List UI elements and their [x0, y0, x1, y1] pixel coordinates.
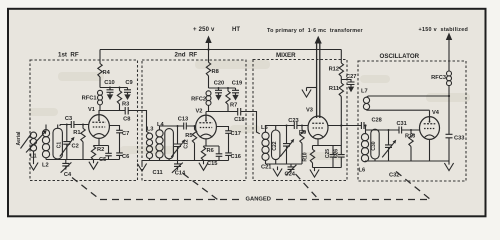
- svg-text:C16: C16: [231, 154, 241, 160]
- svg-text:V4: V4: [432, 110, 440, 116]
- svg-text:L6: L6: [359, 168, 366, 174]
- resistor R11: [339, 83, 343, 146]
- svg-text:C6: C6: [122, 154, 129, 160]
- choke RFC3: [447, 71, 452, 86]
- cathode network V1: [94, 138, 109, 145]
- capacitor C33: [446, 134, 453, 138]
- wire R4 to screen rail: [100, 77, 128, 88]
- +250v HT arrow: [208, 41, 210, 50]
- svg-text:C10: C10: [104, 80, 114, 86]
- resistor R7: [226, 88, 230, 112]
- resistor R5: [192, 126, 196, 161]
- svg-text:R10: R10: [303, 152, 309, 161]
- svg-text:C2: C2: [72, 144, 79, 150]
- ground at L3: [137, 162, 146, 172]
- svg-text:L2: L2: [42, 163, 49, 169]
- svg-text:C33: C33: [454, 136, 464, 142]
- svg-text:C11: C11: [153, 170, 163, 176]
- capacitor C27 branch: [341, 80, 351, 83]
- coil L7: [363, 97, 369, 110]
- capacitor C8: [125, 107, 128, 115]
- svg-text:R8: R8: [212, 69, 219, 75]
- plate wire V2: [206, 112, 238, 116]
- svg-text:L7: L7: [361, 89, 368, 95]
- svg-text:C27: C27: [346, 74, 356, 80]
- svg-text:C20: C20: [214, 81, 224, 87]
- svg-text:GANGED: GANGED: [246, 197, 271, 203]
- tube V1: [89, 115, 110, 139]
- svg-text:RFC3: RFC3: [431, 75, 446, 81]
- svg-text:C21: C21: [261, 165, 271, 171]
- box 2nd RF: [142, 60, 246, 181]
- trimmer C4: [61, 160, 72, 173]
- svg-text:C13: C13: [178, 117, 188, 123]
- variable capacitor C2: [60, 125, 75, 160]
- box MIXER: [253, 60, 347, 181]
- variable capacitor osc: [382, 130, 396, 161]
- faint bleed-through mottling: [28, 60, 470, 160]
- variable capacitor mixer: [280, 126, 294, 165]
- ground under osc: [444, 161, 453, 171]
- capacitor C23: [294, 122, 297, 129]
- svg-text:R3: R3: [122, 102, 129, 108]
- svg-text:C4: C4: [64, 172, 72, 178]
- padder box stage2: [165, 129, 174, 161]
- HT bus wire: [100, 49, 341, 51]
- svg-text:C23: C23: [288, 118, 298, 124]
- tube V4: [420, 117, 440, 140]
- coil L2: [42, 125, 49, 160]
- plate wire V1: [99, 111, 126, 115]
- svg-text:R6: R6: [207, 148, 214, 154]
- capacitor C9: [124, 88, 131, 101]
- svg-text:MIXER: MIXER: [276, 52, 296, 59]
- svg-text:+150 v stabilized: +150 v stabilized: [419, 27, 469, 33]
- svg-text:+ 250 v: + 250 v: [193, 27, 215, 33]
- padder C1 box: [53, 125, 62, 160]
- svg-text:C17: C17: [231, 131, 241, 137]
- cathode wire V4: [429, 139, 431, 161]
- svg-text:L3: L3: [147, 127, 154, 133]
- svg-text:R1: R1: [73, 130, 80, 136]
- svg-text:C30: C30: [371, 141, 377, 150]
- ground stub on output: [307, 87, 317, 89]
- tank rail mixer: [266, 163, 303, 165]
- choke RFC2: [206, 91, 211, 112]
- ground under V3: [310, 168, 319, 178]
- wire C18 to L5: [241, 112, 260, 134]
- svg-text:C15: C15: [207, 161, 217, 167]
- svg-text:C18: C18: [234, 117, 244, 123]
- svg-text:L1: L1: [30, 154, 37, 160]
- svg-text:C31: C31: [397, 121, 407, 127]
- svg-text:C25: C25: [325, 149, 331, 158]
- wire to screen rail 2: [209, 76, 236, 88]
- coil L1: [30, 132, 36, 160]
- svg-text:RFC2: RFC2: [191, 97, 206, 103]
- coupling arrow L1-L2: [26, 132, 46, 153]
- ground under R2: [89, 160, 98, 170]
- screen wire to C7/C6: [109, 126, 119, 131]
- capacitor C6: [116, 133, 123, 160]
- wire bus drop to R12: [340, 50, 342, 64]
- ganged diagonal C24: [296, 174, 319, 199]
- box OSCILLATOR: [358, 61, 466, 181]
- capacitor C5: [105, 146, 112, 160]
- svg-text:R5: R5: [185, 133, 192, 139]
- svg-text:C28: C28: [372, 118, 382, 124]
- wire L7 top to supply: [367, 96, 450, 97]
- capacitor C28: [361, 122, 364, 129]
- svg-text:V3: V3: [306, 108, 313, 114]
- wire R12-R11 node: [340, 77, 342, 84]
- svg-text:HT: HT: [232, 27, 240, 33]
- svg-text:C24: C24: [285, 172, 296, 178]
- wire C8 to L3: [128, 111, 149, 134]
- svg-text:To primary of 1·6 mc transfo: To primary of 1·6 mc transformer: [267, 28, 364, 34]
- injection wire V3 to V4: [328, 126, 420, 134]
- capacitor C10: [107, 88, 114, 101]
- screen wire to C17/C16: [216, 127, 228, 131]
- wire L7 bottom to V4 plate: [367, 110, 430, 116]
- svg-text:C19: C19: [232, 81, 242, 87]
- capacitor C17: [225, 131, 232, 134]
- capacitor C13: [184, 123, 187, 130]
- svg-text:RFC1: RFC1: [82, 96, 97, 102]
- resistor R2: [91, 146, 95, 160]
- ganged bus line: [100, 199, 431, 201]
- svg-text:C22: C22: [272, 141, 278, 150]
- ground on mixer tank: [273, 167, 282, 177]
- resistor R4: [98, 64, 102, 78]
- grid wire V2: [160, 126, 196, 130]
- grid wire V1: [60, 125, 89, 127]
- resistor R6: [201, 146, 205, 160]
- capacitor C25: [330, 146, 337, 168]
- ganged diagonal C32: [396, 172, 431, 200]
- IF output pair: [317, 42, 320, 119]
- svg-text:R9: R9: [299, 130, 306, 136]
- padder box C30: [371, 129, 379, 161]
- svg-text:C5: C5: [99, 157, 106, 163]
- resistor R13: [409, 130, 413, 161]
- tank bottom rail: [46, 159, 120, 161]
- +150v arrow: [446, 33, 452, 41]
- svg-text:R12: R12: [329, 67, 339, 73]
- resistor R1: [81, 125, 85, 160]
- svg-text:C32: C32: [389, 173, 399, 179]
- ground at L1: [29, 161, 38, 171]
- choke RFC1: [98, 90, 103, 110]
- svg-text:C14: C14: [175, 171, 186, 177]
- tank bottom rail 2: [142, 160, 229, 162]
- resistor R10: [310, 146, 314, 168]
- box 1st RF: [30, 60, 138, 181]
- svg-text:C3: C3: [65, 116, 72, 122]
- coil L6: [361, 133, 368, 161]
- capacitor C26: [338, 146, 345, 168]
- capacitor C16: [225, 133, 232, 160]
- capacitor C7: [116, 130, 123, 133]
- svg-text:2nd RF: 2nd RF: [175, 52, 198, 59]
- svg-text:C8: C8: [123, 117, 130, 123]
- wire bus drop to R8: [208, 50, 210, 63]
- ganged diagonal C14: [183, 174, 218, 200]
- svg-text:R13: R13: [405, 134, 415, 140]
- svg-text:C26: C26: [334, 149, 340, 158]
- coil L3: [146, 133, 152, 160]
- coil L4: [156, 130, 163, 161]
- resistor R12: [339, 63, 343, 77]
- tube V2: [196, 115, 217, 139]
- cathode network V3: [313, 139, 342, 146]
- svg-text:R7: R7: [230, 103, 237, 109]
- capacitor C31: [399, 127, 402, 134]
- svg-text:V2: V2: [196, 109, 203, 115]
- svg-text:V1: V1: [88, 107, 95, 113]
- svg-text:L5: L5: [261, 125, 268, 131]
- capacitor C3: [71, 121, 74, 128]
- capacitor C18: [238, 108, 241, 116]
- tube V3: [308, 116, 328, 139]
- capacitor C19: [232, 88, 239, 101]
- ganged diagonal C4: [72, 178, 100, 200]
- svg-text:OSCILLATOR: OSCILLATOR: [380, 53, 420, 60]
- trimmer C14: [172, 161, 183, 173]
- capacitor C15: [216, 146, 223, 161]
- svg-text:C7: C7: [122, 131, 129, 137]
- +150v supply wire: [448, 39, 450, 161]
- svg-text:C12: C12: [184, 139, 190, 148]
- grid wire V3 left: [266, 126, 309, 133]
- trimmer C24: [286, 164, 297, 175]
- svg-text:C9: C9: [125, 80, 132, 86]
- svg-text:R4: R4: [103, 70, 111, 76]
- svg-text:R2: R2: [97, 147, 104, 153]
- capacitor C20: [215, 88, 222, 101]
- osc bottom rail: [365, 160, 449, 162]
- resistor R3: [117, 88, 121, 111]
- resistor R8: [206, 62, 210, 76]
- svg-text:1st RF: 1st RF: [58, 52, 79, 59]
- aerial lead-in: [21, 134, 32, 149]
- svg-text:Aerial: Aerial: [16, 131, 22, 146]
- wire bus drop to R4: [99, 50, 101, 64]
- coil L5: [262, 132, 269, 164]
- cathode network V2: [204, 139, 220, 146]
- svg-text:R11: R11: [329, 86, 339, 92]
- ground under R6: [199, 161, 208, 171]
- cathode ground rail: [313, 167, 342, 169]
- svg-text:C1: C1: [56, 142, 62, 149]
- variable capacitor C12: [171, 126, 185, 161]
- svg-text:L4: L4: [157, 122, 164, 128]
- resistor R9: [300, 126, 304, 165]
- padder box mixer C22: [272, 126, 280, 165]
